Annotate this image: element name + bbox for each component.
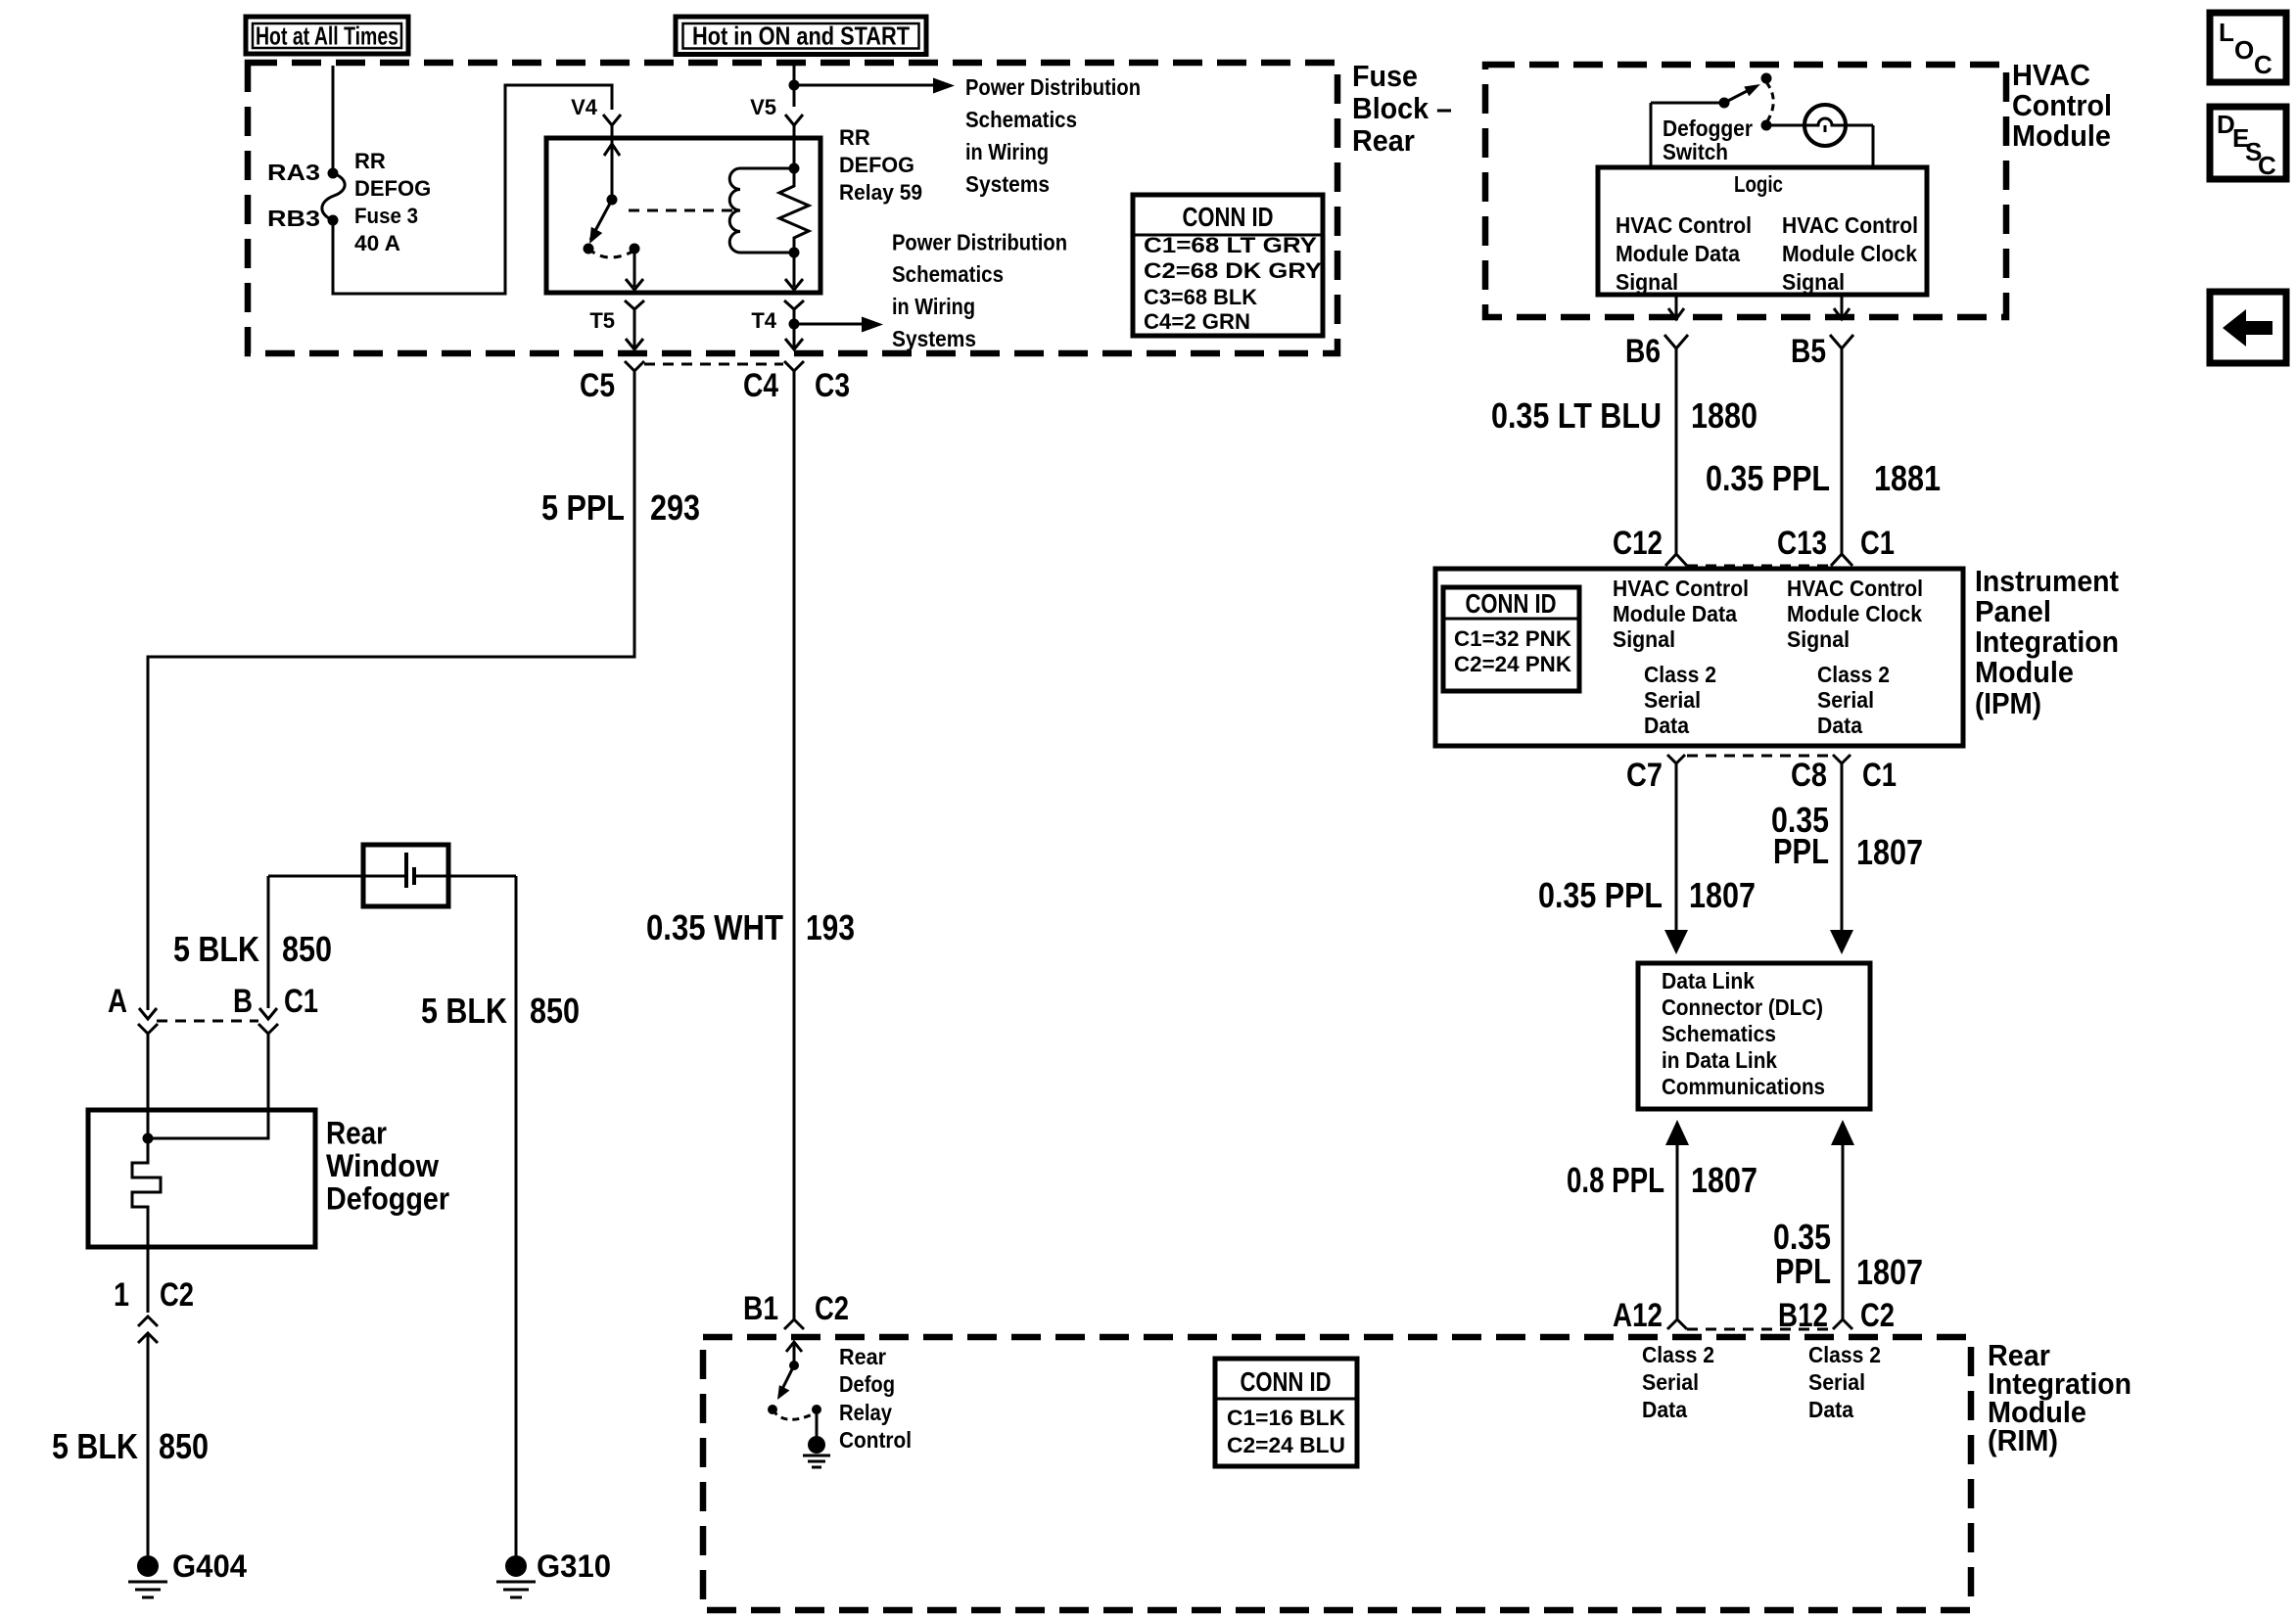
svg-text:1880: 1880 <box>1691 395 1757 436</box>
svg-text:0.35 PPL: 0.35 PPL <box>1706 458 1830 498</box>
svg-text:C7: C7 <box>1626 757 1663 794</box>
svg-text:Block –: Block – <box>1352 91 1452 125</box>
svg-text:RA3: RA3 <box>267 160 320 185</box>
svg-text:C3=68 BLK: C3=68 BLK <box>1144 285 1257 309</box>
svg-text:Schematics: Schematics <box>965 107 1077 132</box>
svg-text:Signal: Signal <box>1616 269 1678 295</box>
svg-text:Module: Module <box>1975 655 2074 689</box>
svg-text:Serial: Serial <box>1808 1369 1865 1395</box>
svg-text:Signal: Signal <box>1782 269 1845 295</box>
svg-text:Hot in ON and START: Hot in ON and START <box>692 22 910 51</box>
svg-text:CONN ID: CONN ID <box>1241 1366 1332 1397</box>
svg-text:0.8 PPL: 0.8 PPL <box>1567 1160 1664 1200</box>
svg-text:C4: C4 <box>743 367 778 404</box>
svg-text:HVAC Control: HVAC Control <box>1782 212 1918 238</box>
svg-text:DEFOG: DEFOG <box>354 176 431 201</box>
svg-text:Systems: Systems <box>965 171 1050 197</box>
svg-text:HVAC Control: HVAC Control <box>1787 576 1923 601</box>
svg-text:Defogger: Defogger <box>326 1181 449 1217</box>
svg-text:0.35 LT BLU: 0.35 LT BLU <box>1491 395 1662 436</box>
svg-text:Rear: Rear <box>839 1344 886 1369</box>
svg-text:C1=16 BLK: C1=16 BLK <box>1227 1406 1345 1430</box>
svg-text:T4: T4 <box>751 308 776 333</box>
svg-text:Systems: Systems <box>892 326 976 351</box>
svg-text:HVAC Control: HVAC Control <box>1613 576 1749 601</box>
svg-text:B: B <box>233 983 253 1020</box>
svg-text:850: 850 <box>159 1426 209 1466</box>
svg-text:Rear: Rear <box>326 1116 387 1151</box>
svg-text:Class 2: Class 2 <box>1808 1342 1881 1367</box>
svg-text:Integration: Integration <box>1975 624 2119 659</box>
svg-text:Data: Data <box>1642 1397 1687 1422</box>
svg-text:C1=68 LT GRY: C1=68 LT GRY <box>1144 233 1317 257</box>
svg-text:C1: C1 <box>1862 757 1897 794</box>
svg-text:T5: T5 <box>589 308 615 333</box>
svg-text:Communications: Communications <box>1662 1074 1825 1099</box>
svg-text:Schematics: Schematics <box>892 261 1004 287</box>
svg-text:1807: 1807 <box>1689 875 1756 915</box>
svg-text:C4=2 GRN: C4=2 GRN <box>1144 309 1250 334</box>
svg-text:Module Clock: Module Clock <box>1782 241 1917 266</box>
svg-text:1: 1 <box>114 1276 129 1314</box>
svg-text:(RIM): (RIM) <box>1988 1423 2058 1457</box>
svg-text:RB3: RB3 <box>267 206 320 231</box>
svg-text:C8: C8 <box>1791 757 1827 794</box>
svg-text:CONN ID: CONN ID <box>1183 202 1274 232</box>
svg-text:C2: C2 <box>1860 1297 1895 1334</box>
svg-text:C2: C2 <box>815 1290 849 1327</box>
svg-text:RR: RR <box>354 149 386 173</box>
svg-text:1881: 1881 <box>1874 458 1941 498</box>
svg-text:C1: C1 <box>1860 525 1895 562</box>
svg-text:1807: 1807 <box>1691 1160 1757 1200</box>
svg-text:C2=68 DK GRY: C2=68 DK GRY <box>1144 258 1322 283</box>
svg-text:C2=24 BLU: C2=24 BLU <box>1227 1433 1345 1457</box>
svg-text:Module Data: Module Data <box>1616 241 1740 266</box>
svg-text:1807: 1807 <box>1856 1252 1923 1292</box>
svg-text:V5: V5 <box>750 95 776 119</box>
svg-text:A12: A12 <box>1613 1297 1663 1334</box>
svg-text:Control: Control <box>839 1427 912 1453</box>
svg-text:Switch: Switch <box>1663 139 1728 164</box>
svg-text:G310: G310 <box>537 1548 611 1584</box>
svg-text:Module Data: Module Data <box>1613 601 1737 626</box>
svg-text:Instrument: Instrument <box>1975 564 2119 598</box>
svg-text:in Wiring: in Wiring <box>965 139 1049 164</box>
svg-text:Defogger: Defogger <box>1663 115 1753 141</box>
svg-text:Class 2: Class 2 <box>1817 662 1890 687</box>
svg-text:C: C <box>2254 50 2273 79</box>
svg-text:5 PPL: 5 PPL <box>541 487 625 528</box>
svg-text:Power Distribution: Power Distribution <box>965 74 1141 100</box>
svg-text:Serial: Serial <box>1644 687 1701 713</box>
svg-text:B5: B5 <box>1791 333 1826 370</box>
svg-text:O: O <box>2234 35 2254 65</box>
svg-text:PPL: PPL <box>1773 831 1829 871</box>
svg-text:C3: C3 <box>815 367 850 404</box>
svg-text:0.35 PPL: 0.35 PPL <box>1538 875 1663 915</box>
svg-text:C: C <box>2258 151 2276 180</box>
svg-text:Module: Module <box>2012 118 2111 153</box>
svg-text:Signal: Signal <box>1613 626 1675 652</box>
svg-text:Signal: Signal <box>1787 626 1850 652</box>
svg-text:Power Distribution: Power Distribution <box>892 230 1067 255</box>
svg-text:Module Clock: Module Clock <box>1787 601 1922 626</box>
svg-text:Schematics: Schematics <box>1662 1021 1776 1046</box>
svg-text:in Data Link: in Data Link <box>1662 1047 1777 1073</box>
svg-text:B12: B12 <box>1778 1297 1828 1334</box>
svg-text:B6: B6 <box>1625 333 1661 370</box>
svg-text:C1=32 PNK: C1=32 PNK <box>1454 626 1571 651</box>
svg-text:Connector (DLC): Connector (DLC) <box>1662 994 1823 1020</box>
svg-text:850: 850 <box>282 929 332 969</box>
svg-text:Panel: Panel <box>1975 594 2051 628</box>
svg-text:Window: Window <box>326 1148 439 1183</box>
svg-text:Data: Data <box>1817 713 1862 738</box>
svg-text:(IPM): (IPM) <box>1975 686 2041 720</box>
svg-text:V4: V4 <box>571 95 598 119</box>
svg-text:Hot at All Times: Hot at All Times <box>256 22 398 51</box>
svg-text:0.35 WHT: 0.35 WHT <box>646 907 783 947</box>
svg-text:Logic: Logic <box>1734 171 1783 197</box>
svg-text:Serial: Serial <box>1642 1369 1699 1395</box>
svg-text:Class 2: Class 2 <box>1644 662 1716 687</box>
svg-text:850: 850 <box>530 991 580 1031</box>
svg-text:293: 293 <box>650 487 700 528</box>
svg-text:DEFOG: DEFOG <box>839 153 914 177</box>
svg-text:Defog: Defog <box>839 1371 895 1397</box>
svg-text:L: L <box>2219 18 2234 47</box>
svg-text:1807: 1807 <box>1856 832 1923 872</box>
svg-text:Relay 59: Relay 59 <box>839 180 922 205</box>
svg-text:HVAC Control: HVAC Control <box>1616 212 1752 238</box>
svg-text:A: A <box>108 983 127 1020</box>
svg-text:Data: Data <box>1808 1397 1853 1422</box>
svg-text:Data Link: Data Link <box>1662 968 1755 993</box>
svg-text:RR: RR <box>839 125 870 150</box>
svg-text:Rear: Rear <box>1352 123 1415 158</box>
svg-text:PPL: PPL <box>1775 1251 1831 1291</box>
svg-text:Relay: Relay <box>839 1400 892 1425</box>
svg-text:C2: C2 <box>160 1276 194 1314</box>
svg-text:Fuse 3: Fuse 3 <box>354 204 418 228</box>
svg-text:C1: C1 <box>284 983 318 1020</box>
svg-text:Control: Control <box>2012 88 2112 122</box>
svg-text:Data: Data <box>1644 713 1689 738</box>
svg-text:40 A: 40 A <box>354 231 400 255</box>
svg-text:C5: C5 <box>580 367 615 404</box>
svg-text:C12: C12 <box>1613 525 1663 562</box>
svg-text:C2=24 PNK: C2=24 PNK <box>1454 652 1571 676</box>
svg-text:193: 193 <box>806 907 855 947</box>
svg-text:Serial: Serial <box>1817 687 1874 713</box>
svg-text:5 BLK: 5 BLK <box>52 1426 138 1466</box>
svg-text:CONN ID: CONN ID <box>1466 588 1557 619</box>
svg-text:G404: G404 <box>172 1548 247 1584</box>
svg-text:C13: C13 <box>1777 525 1827 562</box>
svg-text:Class 2: Class 2 <box>1642 1342 1714 1367</box>
svg-text:Fuse: Fuse <box>1352 59 1418 93</box>
svg-text:B1: B1 <box>743 1290 778 1327</box>
svg-text:5 BLK: 5 BLK <box>421 991 507 1031</box>
svg-text:5 BLK: 5 BLK <box>173 929 259 969</box>
svg-text:HVAC: HVAC <box>2012 58 2090 92</box>
svg-text:in Wiring: in Wiring <box>892 294 975 319</box>
